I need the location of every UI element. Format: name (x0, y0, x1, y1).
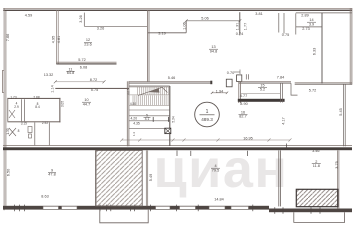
stair diagonal break (138, 87, 168, 95)
niche right of corridor (291, 83, 298, 95)
svg-text:2: 2 (315, 160, 317, 164)
svg-text:8.90: 8.90 (240, 102, 247, 106)
windows bottom (43, 206, 249, 209)
svg-text:2.88: 2.88 (33, 95, 39, 99)
svg-text:79.5: 79.5 (212, 169, 219, 173)
svg-text:4: 4 (214, 164, 216, 168)
svg-text:23.6: 23.6 (84, 43, 91, 47)
pilaster left outside (2, 71, 4, 93)
svg-text:7.84: 7.84 (277, 75, 284, 79)
svg-text:4.35: 4.35 (133, 121, 140, 125)
svg-text:64.8: 64.8 (67, 71, 74, 75)
svg-text:6.33: 6.33 (313, 48, 317, 55)
svg-text:12: 12 (86, 38, 90, 42)
svg-text:4.95: 4.95 (52, 36, 56, 43)
svg-text:82.7: 82.7 (239, 115, 246, 119)
dim line above middle wall (120, 138, 291, 141)
svg-text:1: 1 (206, 109, 209, 115)
svg-text:11.8: 11.8 (313, 164, 320, 168)
svg-text:5.49: 5.49 (149, 174, 153, 181)
landing line (129, 109, 170, 111)
svg-text:3.26: 3.26 (79, 15, 83, 22)
dim line 1.94 (212, 92, 227, 94)
svg-text:1.14: 1.14 (51, 85, 55, 92)
fraction bars (48, 22, 321, 172)
window ticks bottom (15, 205, 321, 214)
room 12 left wall x57 (56, 10, 58, 64)
svg-text:2.9: 2.9 (14, 105, 19, 109)
svg-text:8.72: 8.72 (90, 78, 97, 82)
svg-text:3.75: 3.75 (335, 161, 339, 168)
svg-text:5.45: 5.45 (339, 108, 343, 115)
svg-text:4.17: 4.17 (282, 117, 286, 124)
svg-text:16.95: 16.95 (243, 137, 253, 141)
porch bottom-right (294, 212, 345, 222)
middle wall thick (3, 147, 352, 150)
svg-text:6.50: 6.50 (7, 169, 11, 176)
svg-text:5.06: 5.06 (201, 17, 208, 21)
corridor below stair (129, 115, 170, 117)
inner top line right section (296, 12, 352, 14)
pilaster box A (226, 79, 232, 87)
svg-text:3.9: 3.9 (309, 22, 314, 26)
room 14 verticals top right (321, 13, 323, 84)
svg-text:94.8: 94.8 (210, 49, 217, 53)
mezzanine lines top-center-left (83, 13, 85, 27)
wall x146.8 lower (145, 150, 147, 206)
wall bottom right section (269, 209, 352, 213)
svg-text:0.70: 0.70 (227, 71, 234, 75)
svg-text:3.05: 3.05 (61, 101, 65, 107)
svg-text:1.77: 1.77 (244, 23, 248, 30)
svg-text:5.34: 5.34 (172, 116, 176, 122)
dim line in corridor (241, 92, 280, 94)
svg-text:4.59: 4.59 (25, 14, 32, 18)
svg-text:3.26: 3.26 (97, 26, 104, 30)
svg-text:4.20: 4.20 (130, 116, 137, 120)
svg-text:4.77: 4.77 (240, 94, 247, 98)
room number circle (195, 102, 220, 127)
svg-text:0.74: 0.74 (236, 32, 243, 36)
svg-text:2.92: 2.92 (42, 121, 48, 125)
svg-text:1.94: 1.94 (216, 89, 223, 93)
svg-text:8.4: 8.4 (35, 105, 40, 109)
svg-text:3.19: 3.19 (158, 32, 165, 36)
svg-text:47.8: 47.8 (48, 173, 55, 177)
middle wall thin line (3, 144, 352, 147)
svg-text:6.08: 6.08 (80, 65, 87, 69)
pilaster box B (237, 75, 242, 82)
svg-text:1.73: 1.73 (10, 95, 16, 99)
svg-text:1.06: 1.06 (183, 22, 187, 29)
svg-text:489.3: 489.3 (201, 117, 213, 122)
svg-text:44.7: 44.7 (83, 102, 90, 106)
svg-text:7.66: 7.66 (6, 34, 10, 41)
right wall (337, 150, 339, 208)
room 10 top wall (55, 88, 128, 89)
wc fixtures (28, 127, 32, 133)
svg-text:5.2: 5.2 (260, 88, 265, 92)
svg-text:13.32: 13.32 (44, 73, 54, 77)
svg-text:4.30: 4.30 (130, 102, 136, 106)
stair treads flight 2 (129, 95, 170, 105)
wall top (3, 7, 352, 10)
left block of small rooms (7, 98, 60, 99)
svg-text:2.73: 2.73 (302, 27, 309, 31)
corridor 15 (239, 80, 291, 83)
svg-text:8.63: 8.63 (41, 194, 48, 198)
door jamb at x212 (210, 81, 212, 85)
svg-text:5.72: 5.72 (309, 89, 316, 93)
svg-text:4.6: 4.6 (126, 91, 130, 95)
left wall (double) (277, 150, 280, 206)
svg-text:5.72: 5.72 (78, 58, 85, 62)
svg-text:1.31: 1.31 (235, 23, 239, 30)
svg-text:0.75: 0.75 (282, 33, 289, 37)
hatched area 1 (center-left lower) (96, 150, 142, 206)
svg-text:5.75: 5.75 (91, 88, 98, 92)
right wall mid (double line) x~344 (343, 84, 345, 146)
wall bottom left section (3, 206, 269, 210)
dim line 8.72 (55, 81, 104, 83)
stair treads flight 1 (129, 87, 170, 95)
wall y84 right section (295, 81, 352, 84)
hall top wall from stair to door (129, 80, 213, 83)
stair block (126, 81, 128, 146)
svg-text:3.46: 3.46 (312, 149, 319, 153)
svg-text:1.3: 1.3 (132, 132, 136, 136)
svg-text:2.89: 2.89 (301, 13, 308, 17)
0.70 bracket (234, 71, 240, 73)
duct box (165, 128, 171, 133)
wall right top (349, 8, 351, 85)
door X symbols (9, 110, 15, 118)
svg-text:14.84: 14.84 (214, 198, 224, 202)
svg-text:4.81: 4.81 (57, 36, 61, 43)
hatched area 2 (296, 189, 338, 206)
room 12 bottom wall (56, 61, 116, 64)
svg-text:3.81: 3.81 (255, 12, 262, 16)
rotated dim texts (6, 15, 343, 181)
door jamb ticks on middle wall (177, 144, 287, 157)
svg-text:8: 8 (18, 129, 20, 133)
porch bottom-center (100, 210, 148, 223)
svg-text:1.30: 1.30 (6, 128, 10, 134)
wall left (3, 8, 5, 210)
mezzanine right annotation (148, 32, 186, 34)
svg-text:5.46: 5.46 (168, 76, 175, 80)
room 12 right wall x148 (146, 10, 148, 82)
svg-text:3.15: 3.15 (21, 121, 27, 125)
